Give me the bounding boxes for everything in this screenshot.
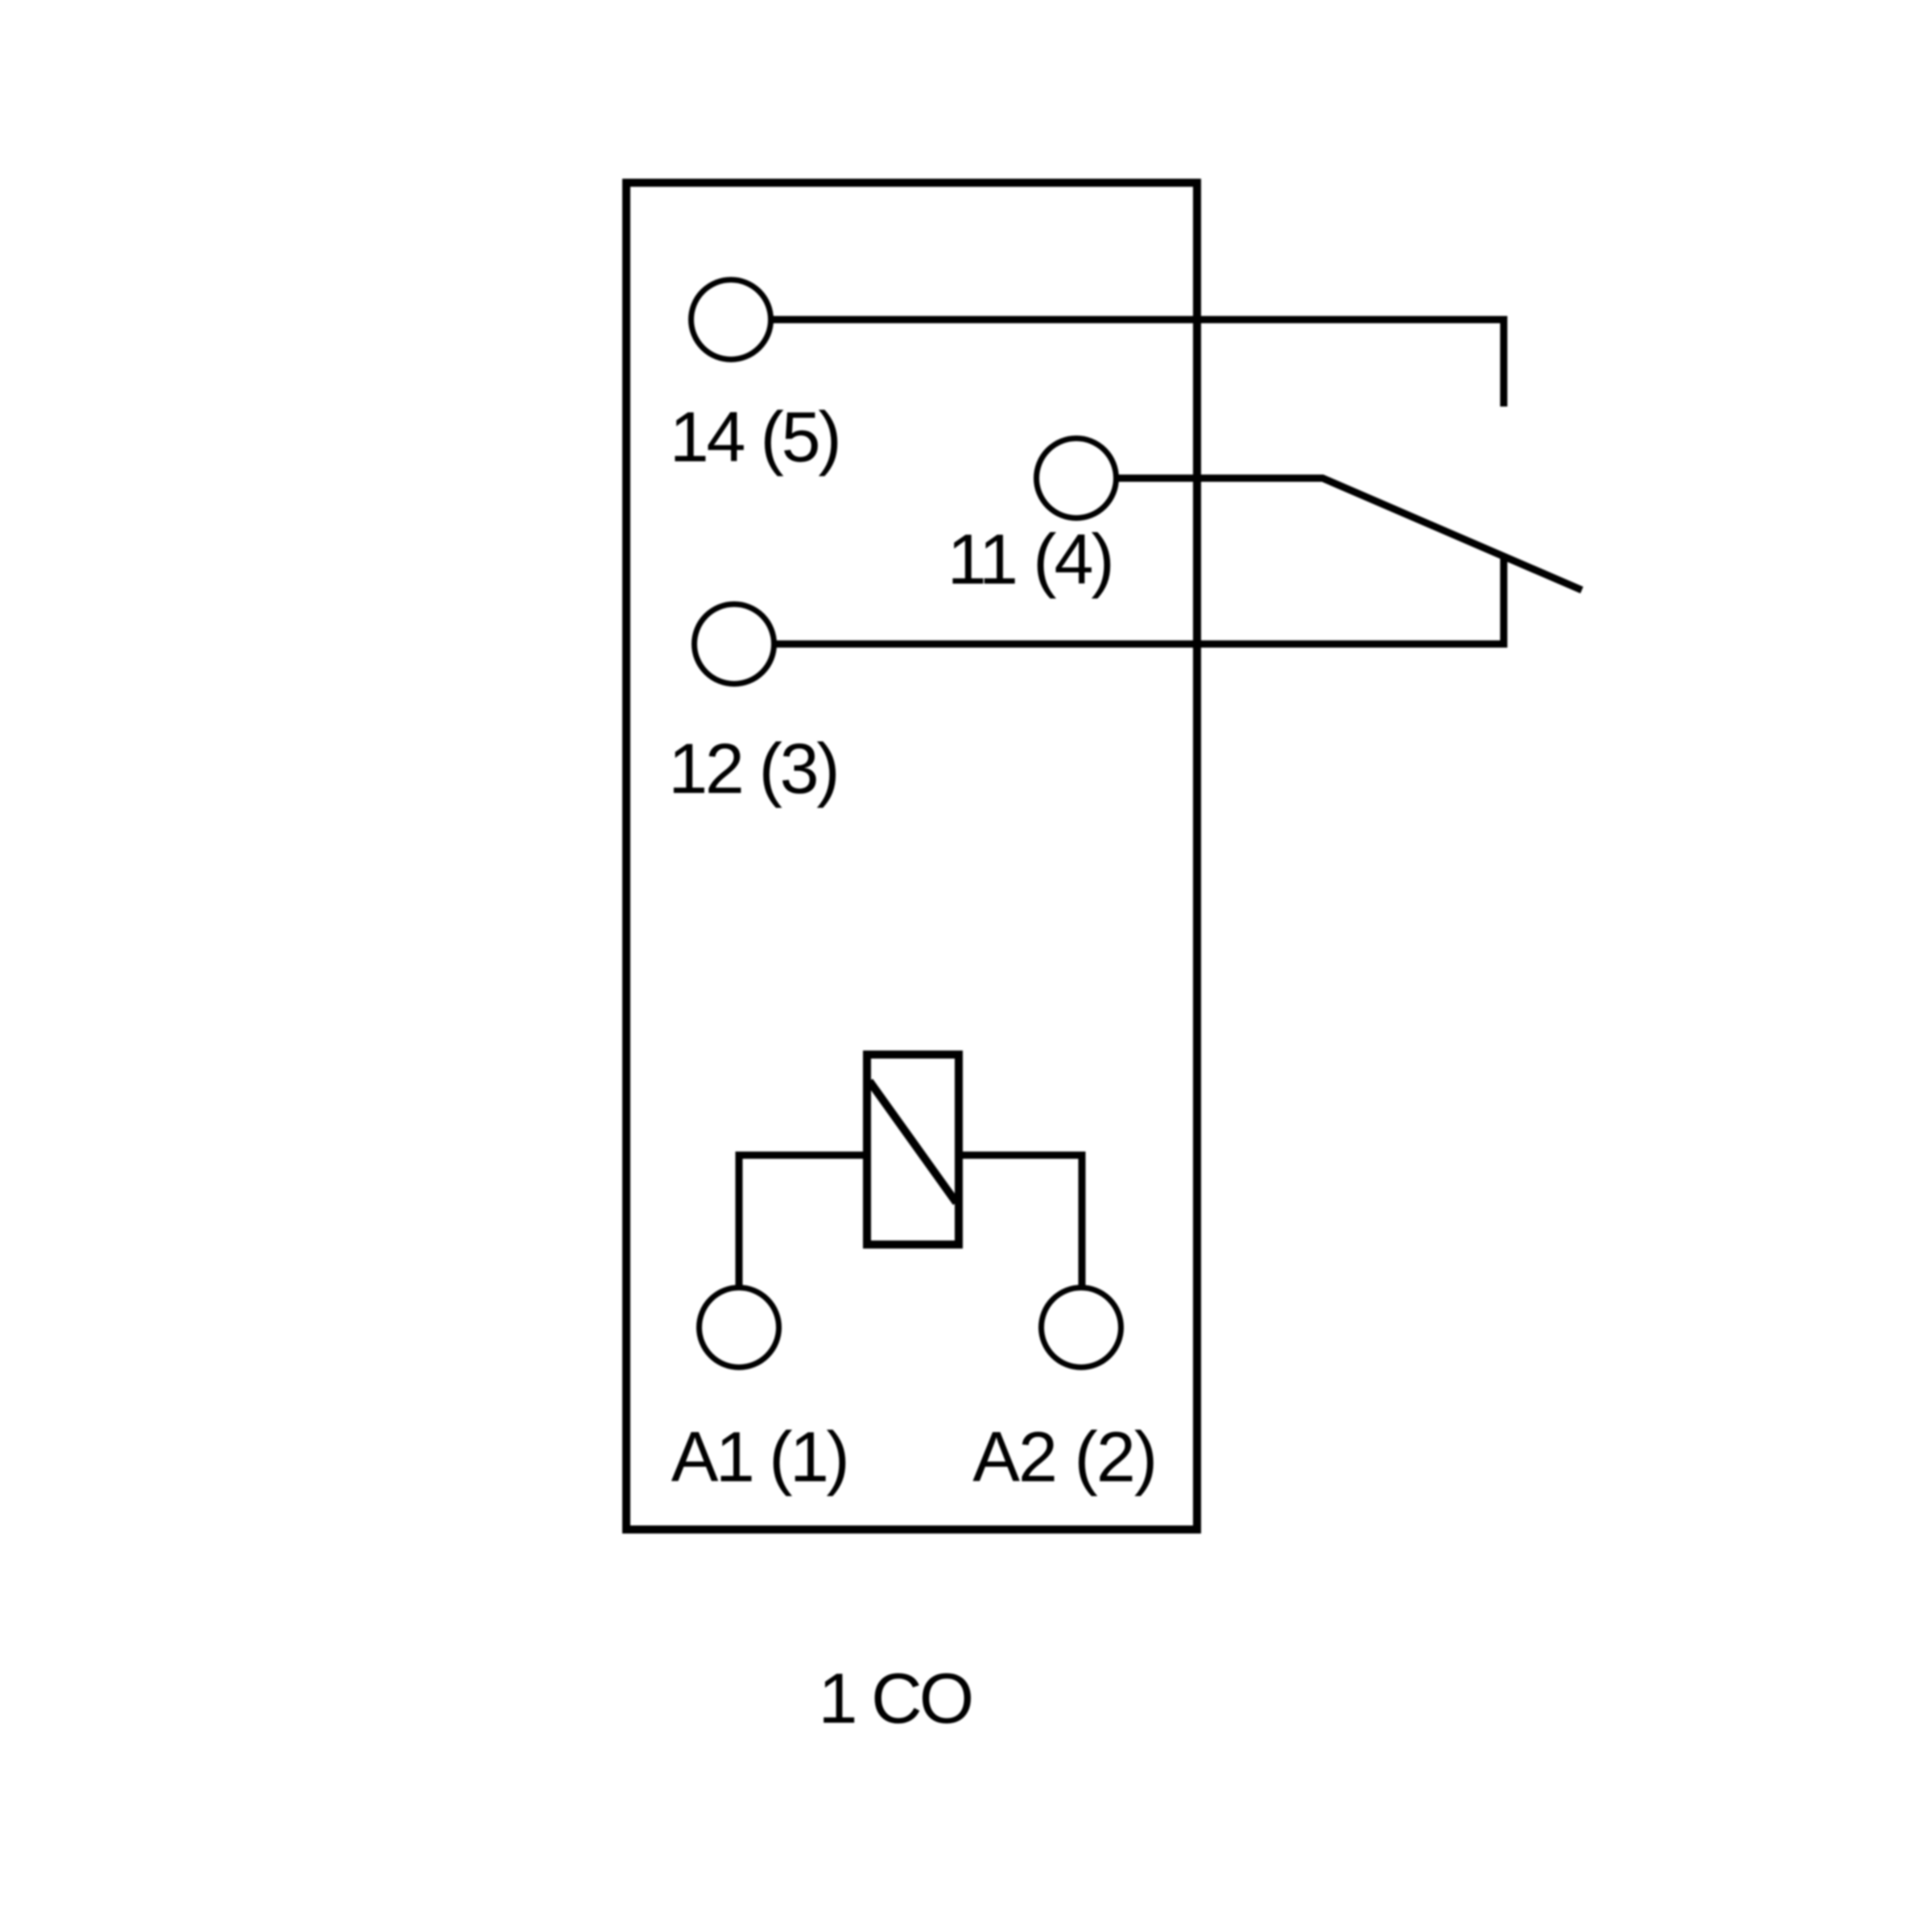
wire A1 to coil [739, 1155, 863, 1288]
wire from 11 with switch blade [1117, 478, 1583, 590]
relay coil K1 [867, 1055, 959, 1245]
wire from 12 to NC fixed contact [774, 559, 1505, 644]
terminal circle 14 [691, 280, 771, 360]
coil diagonal stroke [869, 1081, 956, 1203]
svg-text:A1 (1): A1 (1) [671, 1417, 850, 1496]
svg-text:12 (3): 12 (3) [668, 729, 840, 808]
svg-text:A2 (2): A2 (2) [972, 1417, 1158, 1496]
relay body outline [626, 183, 1197, 1529]
svg-text:14 (5): 14 (5) [670, 397, 842, 477]
terminal circle A1 [700, 1288, 779, 1368]
terminal circle 12 [695, 605, 774, 684]
terminal circle A2 [1042, 1288, 1121, 1368]
wire from 14 to NO fixed contact [771, 320, 1505, 407]
wire coil to A2 [963, 1155, 1082, 1288]
svg-text:11 (4): 11 (4) [947, 519, 1115, 599]
terminal circle 11 [1037, 439, 1117, 518]
svg-text:1 CO: 1 CO [819, 1658, 975, 1738]
